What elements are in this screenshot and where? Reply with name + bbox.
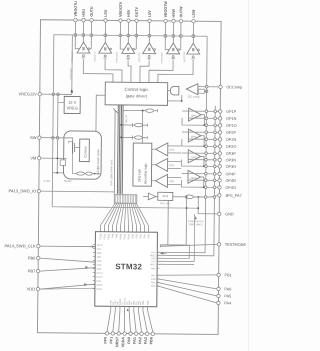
wire oc thr [204,90,206,92]
junction [213,186,216,189]
driver HS V [122,43,135,54]
label PA14 [93,244,103,247]
block 3FG_SEL [158,192,173,205]
pin PA3 [143,307,150,344]
svg-text:OP4: OP4 [190,176,196,180]
pin OP3P [218,152,236,156]
svg-text:VBOOTU: VBOOTU [74,1,78,17]
chip outline [38,20,222,335]
svg-text:PA12: PA12 [127,233,130,239]
wire PA13 SWDIO [41,190,115,193]
svg-text:VBOOTV: VBOOTV [138,52,141,62]
pin PB1 [217,273,232,277]
svg-text:LSW: LSW [192,9,196,18]
wire OP2 output [201,136,218,147]
wire driver to control [140,61,149,83]
svg-text:PA11: PA11 [123,233,126,239]
label PB9 [93,268,102,271]
label R osc [43,179,50,183]
label inner extra [135,301,138,305]
label PA0 inner [128,300,131,305]
pin OUTW [179,6,183,23]
junction [213,159,216,162]
wire 3fg to mcu [160,197,186,245]
svg-text:SW: SW [30,135,37,140]
wire riser r3 [193,214,195,261]
svg-text:PC15: PC15 [97,276,104,279]
resistor OC threshold [198,89,204,93]
label PF6 [151,257,159,260]
gate OC AND [170,86,179,95]
junction [120,136,122,138]
wire pin stub [178,23,181,50]
svg-text:HS2: HS2 [169,163,175,167]
driver HS U [77,42,90,53]
label PB2 [135,233,138,238]
svg-text:3FG_PA7: 3FG_PA7 [225,194,241,198]
svg-text:OP4P: OP4P [226,172,237,176]
svg-text:PF0: PF0 [104,337,108,344]
label NRST inner [119,298,122,305]
wire 3fg3 [193,196,209,198]
svg-text:PA13_SWD_IO: PA13_SWD_IO [9,188,37,193]
junction [205,158,208,161]
glyph UVLO [191,56,195,60]
svg-text:OP1O: OP1O [226,124,237,128]
inductor L [77,172,85,175]
svg-text:VSS: VSS [97,264,102,267]
svg-text:VREG12V: VREG12V [19,91,38,96]
junction [52,93,55,96]
pin OP4O [218,186,236,190]
pin OP1P [219,110,237,114]
label PB2 [151,267,159,270]
junction [205,117,208,120]
bus gate signals [112,105,123,194]
svg-text:OC comp: OC comp [188,95,200,99]
wire pin stub [104,22,106,42]
svg-text:3FG Hall: 3FG Hall [137,169,141,182]
glyph UVLO [103,55,107,59]
label PA5 [151,281,159,284]
block level shifters [114,195,137,204]
wire PB6 [40,258,95,262]
pin PA0 [127,306,132,343]
label PB4 [143,233,146,238]
label net [138,52,141,62]
svg-text:PB13: PB13 [99,233,102,240]
label PB3 [139,233,142,238]
svg-text:PA1: PA1 [133,337,137,344]
label PB15 [107,233,110,240]
junction [119,34,122,37]
junction [186,207,188,209]
label H1 [169,148,175,152]
pin TESTMODE [217,243,246,247]
pin OP2P [218,131,236,135]
glyph UVLO [147,55,151,59]
wire pin stub [88,22,92,49]
pin VBOOTW [164,1,168,23]
junction [56,172,58,174]
wire OP4 output [200,177,217,187]
svg-text:LSV: LSV [148,10,152,18]
pin OP2O [218,145,236,149]
pin OCComp [219,85,242,89]
pin OP1O [218,124,236,128]
label inner extra [126,301,129,305]
wire SW [41,138,73,142]
svg-text:VDD: VDD [97,260,102,263]
pin PA14_SWD_CLK [4,243,40,248]
junction [214,152,217,155]
svg-text:PA4: PA4 [151,285,156,288]
pin PA1 [133,307,138,344]
svg-text:OP3: OP3 [191,156,197,160]
junction [127,34,130,37]
wire fan [104,203,117,232]
svg-text:OP1P: OP1P [226,110,237,114]
svg-text:Control logic: Control logic [124,87,149,92]
svg-text:HSV: HSV [127,9,131,17]
driver LS W [187,43,200,54]
svg-text:PA10: PA10 [119,233,122,239]
label PB5 [147,234,150,239]
wire oc minus [197,91,199,93]
svg-text:GND: GND [225,212,234,216]
svg-text:PA6: PA6 [224,287,231,291]
junction [52,136,55,139]
wire comp out [151,180,155,182]
svg-text:PB6: PB6 [28,255,36,260]
wire fan [134,203,145,232]
svg-text:OUTU: OUTU [90,6,94,17]
wire vreg stub [58,101,64,103]
svg-text:PB9: PB9 [97,268,102,271]
wire OP1P [182,110,218,112]
pin PA2 [138,307,144,344]
label inner extra [121,301,124,305]
junction [213,179,216,182]
label PF5 [93,280,102,283]
wire rail A left [52,35,111,208]
wire 3fg [156,196,158,198]
junction [205,138,208,141]
svg-text:OP1N: OP1N [226,117,237,121]
svg-text:PB2: PB2 [135,233,138,238]
junction [203,186,205,188]
label VDDA inner [124,298,127,305]
junction [120,124,122,126]
block DC/DC buck converter [63,131,101,179]
pin HSV [127,9,131,22]
pin VDDA [121,306,126,347]
svg-text:VBOOTU: VBOOTU [94,51,97,61]
label PA4 [151,285,159,288]
label PA10 [119,233,122,239]
svg-text:PA5: PA5 [224,294,231,298]
label PA7 [151,251,159,254]
junction [213,165,216,168]
resistor row2 [134,123,147,127]
label PA12 [127,233,130,239]
svg-text:OP3N: OP3N [226,158,237,162]
label net [183,51,186,62]
label bus [124,115,128,123]
label PB13 [99,233,102,240]
pin GND [218,212,234,216]
wire hall row 1 [123,109,158,111]
label VSS [93,264,102,267]
svg-text:TESTMODE: TESTMODE [225,243,247,247]
wire pin stub [133,22,137,49]
svg-text:OP2N: OP2N [226,138,237,142]
wire fan [100,203,115,232]
svg-text:VDD: VDD [27,286,36,291]
label PA1 inner [133,300,136,305]
junction [204,179,207,182]
pin OP4N [218,179,236,183]
wire OP3 feedback [182,160,204,167]
pin LSW [192,9,196,23]
svg-text:PB7: PB7 [28,268,36,273]
op-amp OP3 [188,150,201,163]
svg-text:PF5: PF5 [96,280,101,283]
wire fan [108,203,118,232]
svg-text:OP2: OP2 [191,135,197,139]
svg-text:4.7kΩ: 4.7kΩ [43,179,50,183]
wire fan [120,203,124,232]
label VDD [93,260,102,263]
svg-text:PB6: PB6 [97,252,102,255]
note connected [188,216,204,226]
svg-text:PA2: PA2 [138,337,142,344]
label net [116,51,119,62]
op-amp OP1 [189,108,202,121]
pin PA4 [217,301,232,305]
wire comp in1 [168,145,181,147]
svg-text:OP1: OP1 [191,114,197,118]
svg-text:GD_IN: GD_IN [124,115,128,123]
pin PA13_SWD_IO [9,188,41,193]
resistor row3 [134,136,147,140]
page edge [248,0,250,351]
label driver section [109,159,113,186]
svg-text:OP4O: OP4O [225,186,236,190]
wire driver to control [105,60,122,82]
buffer 3FG [143,193,156,200]
junction [57,93,60,96]
glyph vdda arrow [127,308,129,311]
wire MCU right [157,274,217,276]
svg-text:OCComp: OCComp [226,85,242,89]
label inner extra [112,301,115,305]
pin NRST [115,306,120,347]
svg-text:HSU: HSU [82,9,86,17]
svg-text:PB4: PB4 [143,233,146,238]
pin PB7 [28,268,40,273]
svg-text:PB15: PB15 [107,233,110,240]
label PA6 [151,278,159,281]
wire VDD [40,283,95,290]
svg-text:PB5: PB5 [147,234,150,239]
label PF4 [93,248,102,251]
svg-text:VM: VM [30,155,36,160]
label PC15 [93,276,103,279]
svg-text:12 V: 12 V [68,100,77,105]
wire dcdc internal [72,153,100,174]
junction [213,173,216,176]
wire MCU right [157,279,217,289]
wire OP2N [188,138,218,140]
svg-text:OP2O: OP2O [226,145,237,149]
svg-text:HS1: HS1 [169,148,175,152]
junction [104,34,107,37]
label PF7 [151,260,159,263]
glyph UVLO [126,55,130,59]
pin HSW [172,8,176,22]
pin VM [30,155,41,160]
wire driver to control [83,60,113,82]
svg-text:decoding logic: decoding logic [143,163,147,184]
svg-text:PB14: PB14 [103,233,106,240]
label PA11 [123,233,126,239]
junction [197,196,199,198]
wire hall row 3 [121,135,147,139]
capacitor C dcdc [60,160,66,166]
svg-text:OUTW: OUTW [179,6,183,18]
wire comp out [152,164,156,166]
wire 3fg2 [173,196,184,198]
block Control (DC/DC) [80,139,90,162]
junction [205,85,208,88]
wire pin stub [148,22,150,42]
wire fan [131,203,137,232]
wire OP2P [182,131,218,133]
label PB1 [151,274,159,277]
wire sel drop [167,200,169,244]
junction [214,110,217,113]
label inner extra [117,301,120,305]
resistor Rsense [86,172,93,175]
junction [214,117,217,120]
wire fan [127,203,129,232]
svg-text:PB8: PB8 [147,300,150,305]
wire rail B left [56,94,59,172]
svg-text:OP3O: OP3O [226,165,237,169]
junction [204,186,207,189]
label inner extra [140,302,143,306]
wire OP1N [189,117,219,119]
svg-text:VDDA: VDDA [121,337,125,348]
wire OP3 output [201,156,218,166]
junction [204,196,207,199]
wire PB7 [40,266,95,272]
wire MCU right [157,286,217,303]
wire fan [116,203,122,232]
wire fan [136,203,149,232]
glyph UVLO [171,56,175,60]
svg-text:PA14: PA14 [97,244,103,247]
junction [181,100,183,102]
wire fan [132,203,140,232]
wire driver to control [128,60,131,82]
label PF0 inner [110,300,113,305]
wire OP2 feedback [182,139,204,146]
svg-text:PB2: PB2 [151,267,156,270]
pin 3FG_PA7 [218,194,242,198]
resistor row1 [146,109,158,113]
junction [142,110,144,112]
svg-text:3 ph. gate driver sect.: 3 ph. gate driver sect. [109,159,113,186]
pin PF1 [109,306,115,343]
pin VREG12V [19,91,42,96]
wire comp in2 [168,167,181,169]
pin PB6 [28,255,40,260]
label PA2 inner [137,300,140,305]
wire vreg to dcdc [96,95,105,131]
transistor DC/DC switch [68,141,80,153]
svg-text:PA0: PA0 [127,337,131,344]
svg-text:OUTV: OUTV [135,6,139,17]
junction [214,124,217,127]
pin OP3O [218,165,236,169]
svg-text:PB0: PB0 [131,233,134,238]
comparator H2 [156,158,168,171]
wire VDD2 [40,288,95,290]
wire pin stub [82,22,84,42]
pin OP4P [218,172,236,176]
driver HS W [167,43,180,54]
label net [69,68,72,79]
junction [192,35,195,38]
wire pin stub [120,22,125,49]
pin LSV [148,10,152,23]
svg-text:LSU: LSU [104,9,108,17]
label PF1 inner [114,300,117,305]
label net [161,52,164,63]
junction [205,124,208,127]
wire GND bus [110,206,198,209]
svg-text:PB3: PB3 [139,233,142,238]
pin VBOOTV [119,1,123,22]
label PB0 [131,233,134,238]
label net [71,51,74,62]
wire comp in2 [168,152,181,154]
svg-text:PA14_SWD_CLK: PA14_SWD_CLK [4,243,35,248]
svg-text:PA3: PA3 [142,300,145,305]
junction [56,157,58,159]
comparator H1 [156,143,168,156]
wire hall row 2 [121,123,147,127]
pin PA6 [217,287,232,291]
wire gate in2 [168,95,182,101]
junction [205,152,208,155]
svg-text:PA9: PA9 [115,233,118,238]
block 3FG Hall decoding logic [133,143,152,186]
wire pin stub [75,22,80,49]
pin PA5 [217,294,232,298]
wire PA14 SWCLK [40,245,95,248]
svg-text:PB10: PB10 [96,284,103,287]
junction [148,34,151,37]
junction [74,34,77,37]
svg-text:3FG_SEL: 3FG_SEL [160,202,171,205]
comparator OC comp [186,84,200,99]
svg-text:PB11: PB11 [96,288,102,291]
wire comp in1 [167,176,180,178]
junction [214,138,217,141]
